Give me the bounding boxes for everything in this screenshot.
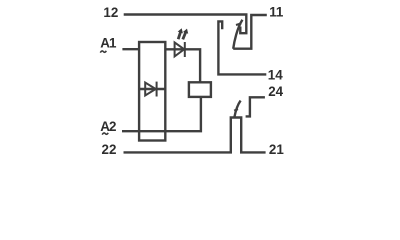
svg-text:12: 12 <box>103 5 118 20</box>
svg-text:A1: A1 <box>100 36 117 51</box>
svg-text:11: 11 <box>269 5 284 20</box>
svg-text:14: 14 <box>268 68 283 83</box>
svg-text:22: 22 <box>102 142 117 157</box>
svg-text:24: 24 <box>268 84 283 99</box>
svg-text:A2: A2 <box>100 119 116 134</box>
svg-text:21: 21 <box>269 142 284 157</box>
